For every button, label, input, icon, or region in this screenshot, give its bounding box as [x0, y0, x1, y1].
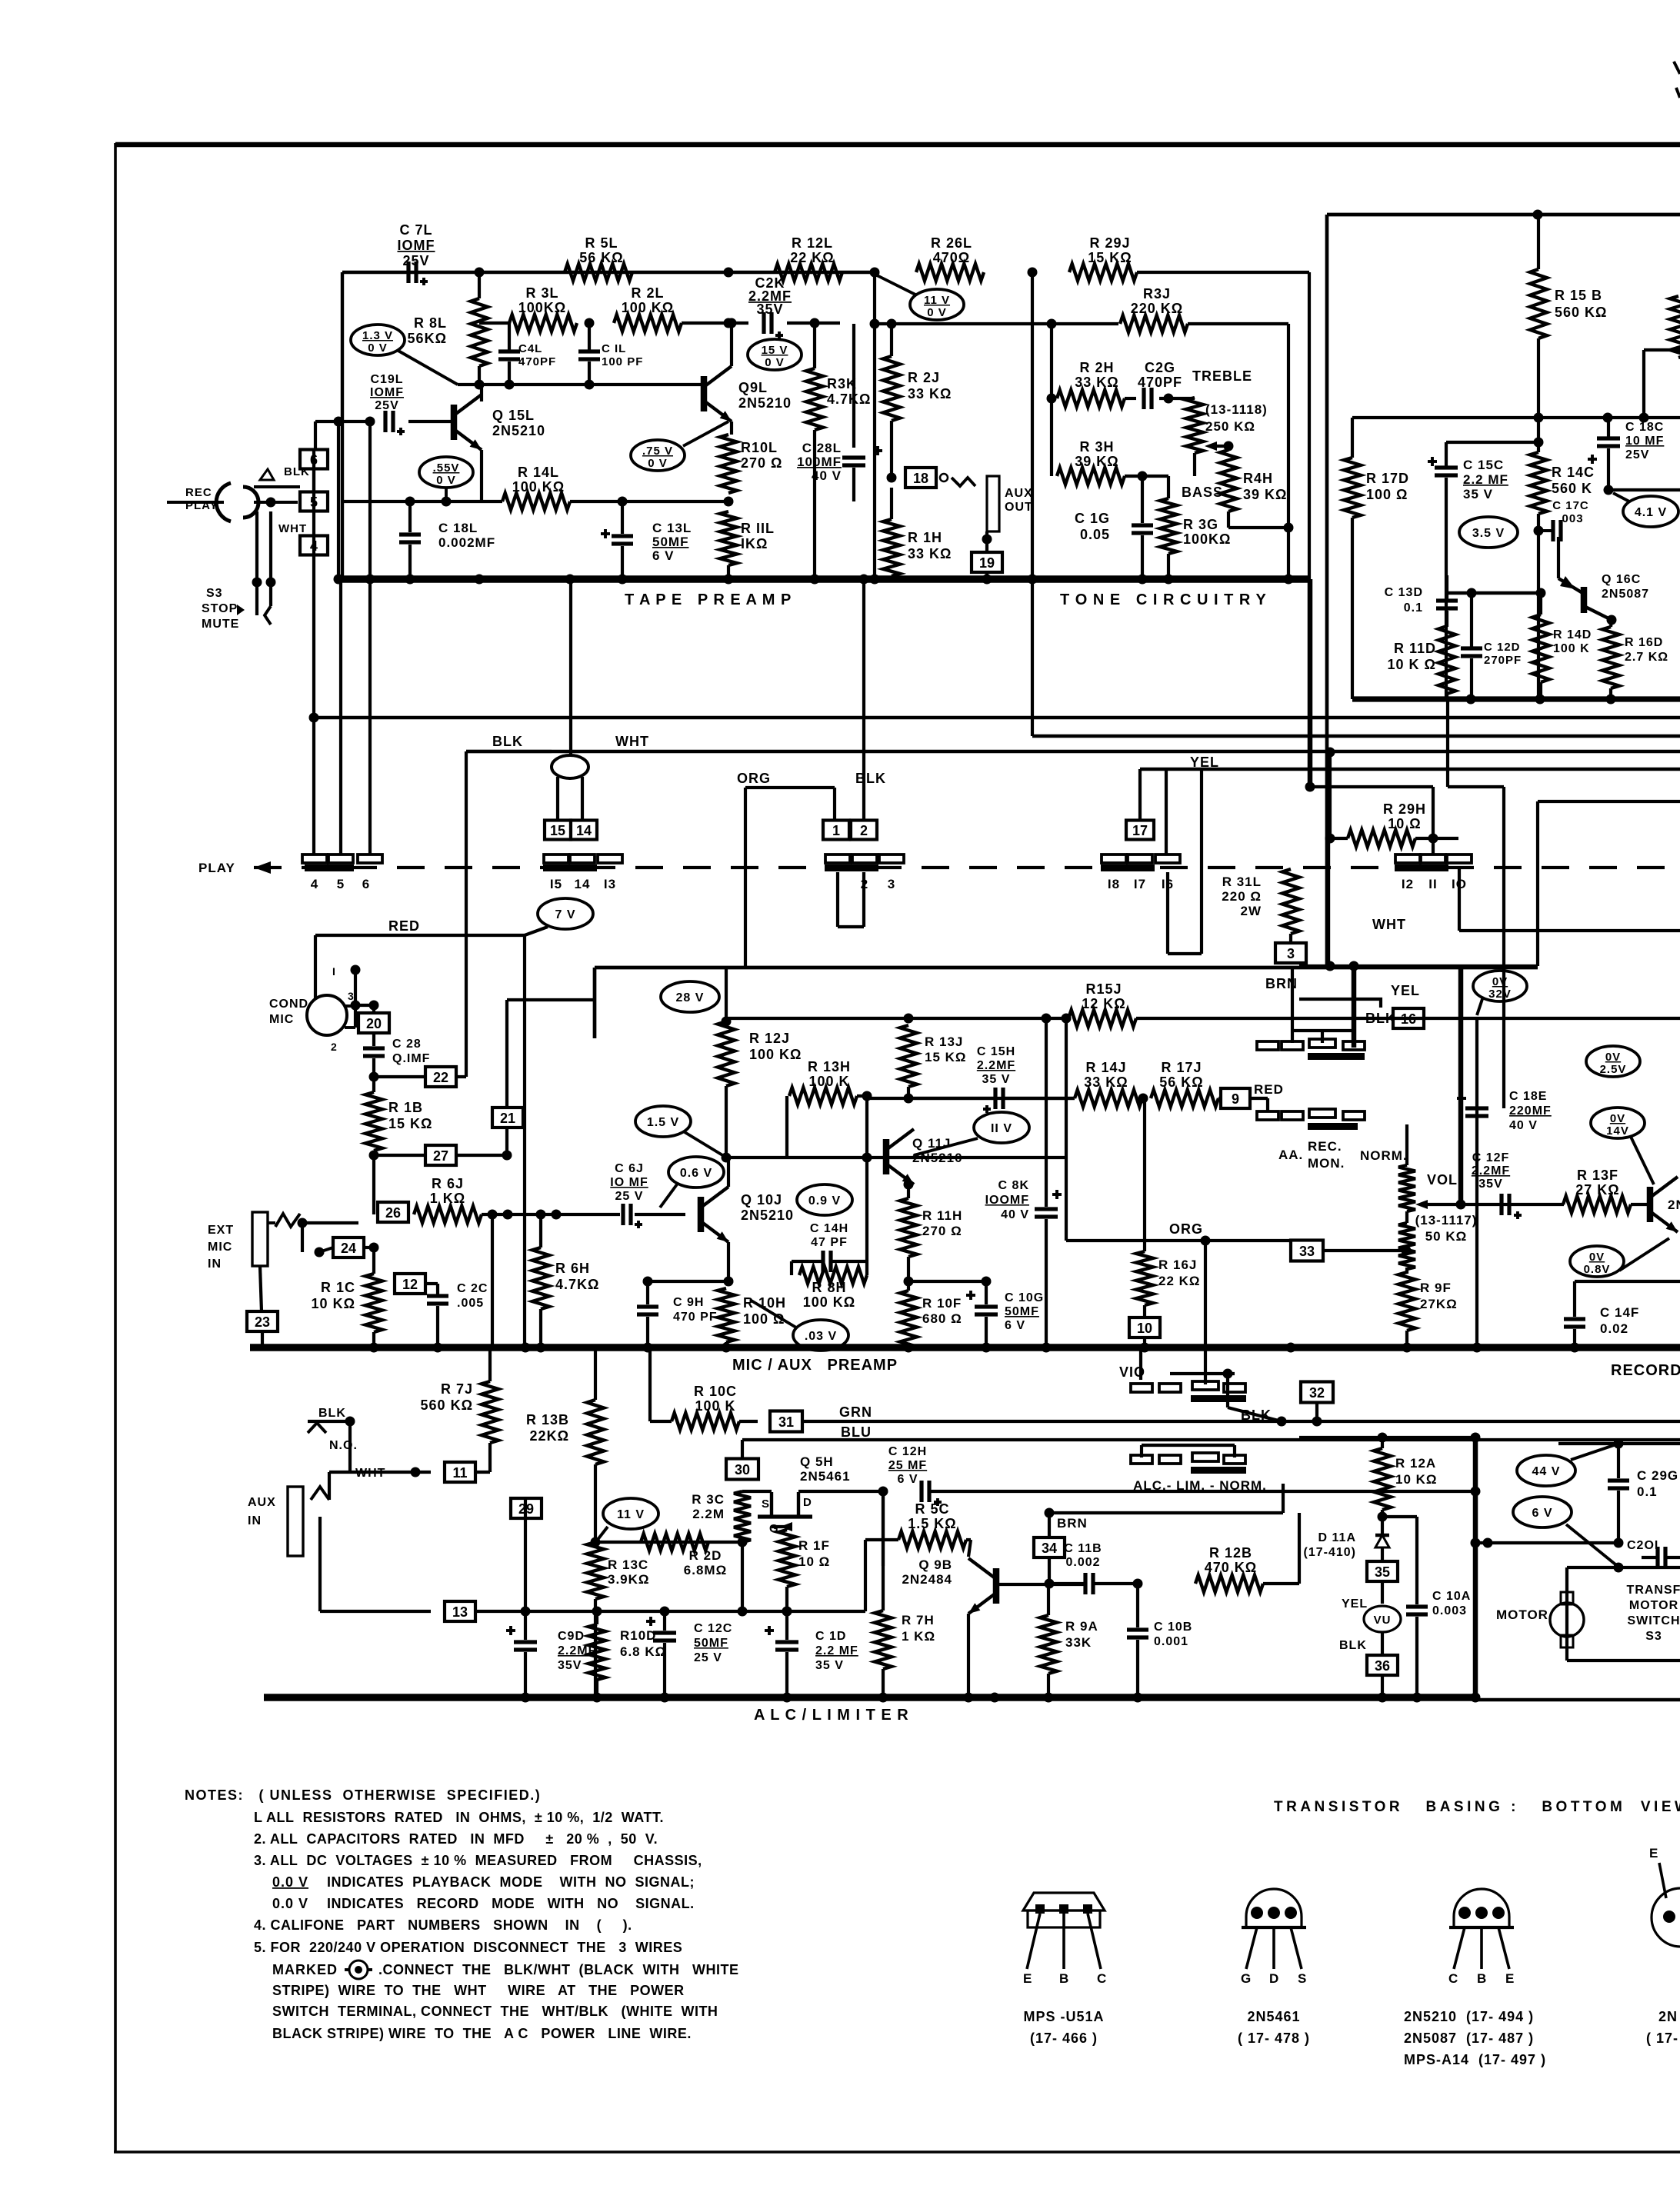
transistor Q10J 2N5210	[698, 1197, 705, 1232]
svg-text:R 15 B: R 15 B	[1555, 288, 1602, 303]
wire C18E vertical	[1475, 1018, 1478, 1348]
svg-text:C 13L: C 13L	[652, 521, 692, 535]
2N5461 leads	[1246, 1927, 1257, 1969]
svg-text:R 11H: R 11H	[922, 1208, 962, 1223]
svg-text:R 13J: R 13J	[925, 1034, 963, 1049]
wire YEL to box 17	[1138, 769, 1142, 820]
bus: ALC/limiter ground bus	[264, 1694, 1475, 1701]
wire: top supply rail of tape preamp	[342, 271, 875, 274]
svg-text:R 1H: R 1H	[908, 530, 942, 545]
svg-text:S3: S3	[206, 587, 223, 600]
connector box 13	[445, 1601, 475, 1621]
stray mark top right	[1674, 62, 1680, 74]
svg-text:11: 11	[452, 1465, 467, 1481]
svg-text:50MF: 50MF	[1005, 1305, 1039, 1318]
svg-text:A L C / L I M I T E R: A L C / L I M I T E R	[754, 1707, 909, 1724]
svg-text:0V: 0V	[1492, 975, 1508, 988]
svg-text:BLK: BLK	[318, 1407, 346, 1420]
jack contact	[940, 474, 948, 481]
svg-text:7 V: 7 V	[555, 908, 575, 921]
resistor R16D vertical	[1602, 627, 1619, 688]
svg-text:YEL: YEL	[1391, 983, 1420, 998]
svg-text:C 10B: C 10B	[1154, 1621, 1192, 1634]
svg-text:R 9A: R 9A	[1065, 1619, 1098, 1634]
svg-text:Q 10J: Q 10J	[741, 1192, 782, 1208]
svg-text:27: 27	[433, 1148, 448, 1164]
svg-text:R 3G: R 3G	[1183, 517, 1218, 532]
svg-text:R 1F: R 1F	[798, 1538, 830, 1553]
junction	[1028, 268, 1038, 278]
svg-text:ORG: ORG	[1169, 1221, 1203, 1237]
svg-text:MUTE: MUTE	[202, 618, 239, 631]
wire: left drop from C7L rail	[341, 272, 344, 579]
svg-text:C2OI: C2OI	[1627, 1539, 1658, 1552]
svg-text:39 KΩ: 39 KΩ	[1075, 454, 1118, 469]
svg-text:2N5087: 2N5087	[1602, 588, 1649, 601]
svg-text:II V: II V	[991, 1122, 1012, 1135]
svg-text:E: E	[1023, 1971, 1032, 1986]
resistor R1B vertical	[365, 1092, 382, 1151]
wire 28V to R12J	[725, 968, 728, 1021]
partial resistor at page edge	[1670, 296, 1680, 358]
svg-text:2N5087 (17- 487 ): 2N5087 (17- 487 )	[1404, 2030, 1534, 2046]
svg-text:C 6J: C 6J	[615, 1162, 644, 1175]
pot wiper	[1205, 441, 1217, 451]
svg-text:470PF: 470PF	[518, 355, 556, 368]
wire: node row collector Q15L	[458, 383, 704, 386]
svg-text:100 Ω: 100 Ω	[743, 1311, 785, 1327]
connector box 23	[247, 1311, 278, 1331]
capacitor C9H	[646, 1281, 649, 1304]
svg-text:C 10G: C 10G	[1005, 1291, 1044, 1304]
wire C12H/Q9B node	[882, 1491, 885, 1566]
svg-text:0.0 V: 0.0 V	[272, 1896, 308, 1911]
svg-text:560 K: 560 K	[1552, 481, 1592, 496]
svg-text:C4L: C4L	[518, 342, 542, 355]
resistor R11D vertical	[1438, 626, 1455, 694]
svg-text:10: 10	[1137, 1321, 1152, 1336]
svg-text:1: 1	[832, 823, 840, 838]
svg-text:ORG: ORG	[737, 771, 771, 786]
wire Q16C collector to R16D	[1607, 615, 1617, 625]
svg-text:23: 23	[255, 1314, 270, 1330]
svg-text:3: 3	[888, 877, 895, 891]
wire: vertical R26L node down	[873, 272, 876, 579]
wire: vertical drops below tape preamp bus	[339, 582, 342, 855]
capacitor C4L	[508, 323, 511, 350]
wire ORG	[745, 786, 835, 789]
svg-text:R 2D: R 2D	[689, 1548, 722, 1563]
wire pads to BLK	[1321, 1031, 1324, 1043]
voltage oval 0V/32V	[1473, 971, 1527, 1001]
wire: y543 node row	[1352, 416, 1680, 419]
svg-text:560 KΩ: 560 KΩ	[1555, 305, 1607, 320]
connector box 4	[300, 536, 328, 555]
svg-text:C 17C: C 17C	[1552, 499, 1589, 512]
svg-text:R4H: R4H	[1243, 471, 1273, 486]
capacitor C10G electrolytic	[966, 1294, 975, 1297]
svg-text:R 2L: R 2L	[631, 285, 664, 301]
connector box 19	[985, 531, 988, 552]
resistor R26L	[916, 264, 984, 281]
wire 6V pointer	[1566, 1524, 1619, 1567]
capacitor C14H	[821, 1251, 825, 1272]
svg-text:50MF: 50MF	[694, 1637, 728, 1650]
resistor R13F	[1563, 1196, 1631, 1213]
wire R2D right to FET source node	[708, 1541, 742, 1544]
svg-text:3.5 V: 3.5 V	[1472, 527, 1505, 540]
capacitor C7L	[406, 262, 410, 283]
svg-text:R 12L: R 12L	[792, 235, 833, 251]
svg-text:Q9L: Q9L	[738, 380, 768, 395]
svg-text:D: D	[803, 1496, 812, 1509]
svg-text:3: 3	[348, 990, 355, 1002]
svg-text:R 31L: R 31L	[1222, 874, 1262, 889]
svg-text:0.05: 0.05	[1080, 527, 1110, 542]
connector pads 18 17 16	[1102, 854, 1126, 863]
wire thick vol	[1458, 966, 1464, 1204]
svg-text:100 Ω: 100 Ω	[1366, 487, 1408, 502]
svg-text:4.1 V: 4.1 V	[1635, 506, 1667, 519]
svg-text:33 KΩ: 33 KΩ	[908, 386, 952, 401]
svg-text:2N5210: 2N5210	[741, 1208, 794, 1223]
connector box 2	[851, 821, 877, 840]
wire Q10J collector	[727, 1158, 730, 1187]
svg-text:14: 14	[575, 877, 591, 891]
capacitor C29G	[1617, 1444, 1620, 1478]
svg-text:C9D: C9D	[558, 1630, 585, 1643]
svg-text:2.7 KΩ: 2.7 KΩ	[1625, 651, 1668, 664]
svg-text:C 15C: C 15C	[1463, 458, 1504, 472]
svg-text:21: 21	[500, 1111, 515, 1126]
svg-text:6 V: 6 V	[652, 548, 675, 563]
svg-text:39 KΩ: 39 KΩ	[1243, 487, 1287, 502]
svg-text:B: B	[1059, 1971, 1069, 1986]
junction dots on ALC bus	[521, 1693, 531, 1703]
connector box 34	[1034, 1537, 1065, 1557]
connector box 26	[378, 1202, 408, 1222]
wire 31 to right	[802, 1420, 1680, 1423]
wire: rail 2	[1032, 735, 1680, 738]
svg-text:22 KΩ: 22 KΩ	[790, 250, 834, 265]
capacitor C18E electrolytic	[1457, 1097, 1466, 1100]
svg-text:Q 9B: Q 9B	[918, 1557, 952, 1572]
voltage ovals 0V/2.5V and 0V/14V	[1586, 1046, 1640, 1077]
svg-text:C 1G: C 1G	[1075, 511, 1110, 526]
svg-text:INDICATES RECORD MODE WI: INDICATES RECORD MODE WITH NO SIGNAL.	[327, 1896, 695, 1911]
svg-text:MPS-A14 (17- 497 ): MPS-A14 (17- 497 )	[1404, 2052, 1546, 2067]
svg-text:G: G	[1241, 1971, 1252, 1986]
svg-text:RED: RED	[1254, 1082, 1284, 1097]
svg-text:270PF: 270PF	[1484, 654, 1522, 667]
wire: RED drop	[523, 935, 526, 1348]
svg-text:2.2 MF: 2.2 MF	[1463, 472, 1508, 487]
svg-text:22: 22	[433, 1070, 448, 1085]
svg-text:40 V: 40 V	[1001, 1208, 1029, 1221]
voltage oval 11V/0V	[910, 289, 964, 320]
svg-text:WHT: WHT	[615, 734, 649, 749]
svg-text:MOTOR: MOTOR	[1629, 1599, 1678, 1612]
wire R29H node drops	[1328, 752, 1332, 838]
svg-text:C 12D: C 12D	[1484, 641, 1521, 654]
transistor basing MPS-U51A package	[1023, 1893, 1105, 1911]
pot lower half	[1398, 1223, 1415, 1269]
svg-text:R 6H: R 6H	[555, 1261, 590, 1276]
svg-text:R 10F: R 10F	[922, 1296, 962, 1311]
svg-text:R 11D: R 11D	[1394, 641, 1436, 656]
svg-text:220MF: 220MF	[1509, 1104, 1552, 1118]
wire pot wiper row	[1421, 1203, 1564, 1206]
svg-text:35 V: 35 V	[1463, 487, 1493, 501]
svg-text:0 V: 0 V	[765, 356, 785, 369]
svg-text:30: 30	[735, 1462, 750, 1477]
svg-text:0 V: 0 V	[436, 474, 456, 487]
connector box 6	[300, 450, 328, 469]
connector pads 4 5 6	[302, 854, 327, 863]
svg-text:12: 12	[402, 1277, 418, 1292]
svg-text:R 8H: R 8H	[812, 1280, 846, 1295]
svg-text:R 12J: R 12J	[749, 1031, 790, 1046]
svg-text:C 12H: C 12H	[888, 1445, 927, 1458]
svg-text:470 PF: 470 PF	[673, 1311, 718, 1324]
svg-text:C 18C: C 18C	[1625, 421, 1664, 434]
capacitor C18C electrolytic	[1607, 418, 1610, 437]
resistor R10F vertical	[900, 1291, 917, 1349]
resistor R13J vertical	[900, 1025, 917, 1087]
svg-text:2: 2	[331, 1041, 338, 1053]
VU meter oval	[1364, 1606, 1401, 1632]
svg-text:44 V: 44 V	[1532, 1465, 1561, 1478]
resistor R11H vertical	[900, 1198, 917, 1257]
svg-text:MIC: MIC	[208, 1241, 232, 1254]
resistor R14J	[1075, 1090, 1142, 1107]
connector box 32	[1301, 1382, 1333, 1403]
connector box 5	[300, 492, 328, 511]
inner block bottom bus	[1352, 696, 1680, 701]
svg-text:34: 34	[1042, 1541, 1057, 1556]
svg-text:(17- 466 ): (17- 466 )	[1030, 2030, 1098, 2046]
svg-text:100MF: 100MF	[797, 455, 842, 469]
svg-text:R 29J: R 29J	[1089, 235, 1130, 251]
svg-text:47 PF: 47 PF	[811, 1236, 848, 1249]
svg-text:C 28: C 28	[392, 1038, 422, 1051]
connector box 9	[1221, 1088, 1250, 1108]
svg-text:6.8 KΩ: 6.8 KΩ	[620, 1644, 666, 1659]
wire 44V pointer	[1571, 1444, 1618, 1460]
svg-text:18: 18	[913, 471, 928, 486]
svg-text:(13-1117): (13-1117)	[1415, 1213, 1478, 1228]
wire right vertical 2104	[1614, 1439, 1624, 1449]
svg-text:R 14J: R 14J	[1085, 1060, 1126, 1075]
resistor R5L	[565, 264, 632, 281]
wire mic to box 20	[369, 1001, 379, 1011]
svg-text:100 K: 100 K	[1553, 642, 1590, 655]
connector box 31	[770, 1411, 802, 1432]
svg-text:.75 V: .75 V	[642, 445, 673, 458]
resistor R1C vertical	[365, 1274, 382, 1332]
svg-text:22KΩ: 22KΩ	[530, 1428, 569, 1444]
svg-text:SWITCH: SWITCH	[1627, 1614, 1680, 1627]
svg-text:2.2MF: 2.2MF	[977, 1059, 1015, 1072]
connector box 24	[333, 1238, 364, 1258]
svg-text:RED: RED	[388, 918, 420, 934]
junction	[475, 268, 485, 278]
svg-text:REC.: REC.	[1308, 1139, 1342, 1154]
svg-text:TRANSF: TRANSF	[1627, 1584, 1680, 1597]
resistor R1F vertical	[778, 1530, 795, 1587]
wire Q9L collector up to C2K node	[730, 323, 733, 366]
svg-text:2N: 2N	[1668, 1198, 1680, 1212]
svg-text:2N: 2N	[1658, 2009, 1678, 2024]
svg-text:35 V: 35 V	[982, 1073, 1011, 1086]
svg-text:R15J: R15J	[1085, 981, 1122, 997]
svg-text:14V: 14V	[1606, 1124, 1629, 1138]
erase head coil	[552, 755, 588, 778]
capacitor C19L	[315, 420, 370, 423]
svg-text:13: 13	[452, 1604, 468, 1620]
svg-text:OUT: OUT	[1005, 501, 1033, 514]
svg-text:R 14C: R 14C	[1552, 465, 1595, 480]
svg-text:L ALL RESISTORS RATED IN: L ALL RESISTORS RATED IN OHMS, ± 10 %, 1…	[254, 1810, 664, 1825]
connector box 36	[1367, 1655, 1398, 1675]
svg-text:15 KΩ: 15 KΩ	[388, 1116, 432, 1131]
svg-text:R3J: R3J	[1143, 286, 1171, 301]
wire: C28L drop	[852, 324, 855, 448]
svg-text:0.8V: 0.8V	[1584, 1263, 1611, 1276]
junction	[1533, 210, 1543, 220]
svg-text:IO MF: IO MF	[610, 1176, 648, 1189]
svg-text:0.02: 0.02	[1600, 1321, 1628, 1336]
erase head drop	[569, 579, 572, 756]
svg-text:R 16J: R 16J	[1158, 1258, 1197, 1272]
svg-text:R 3C: R 3C	[692, 1492, 725, 1507]
svg-text:2N5210: 2N5210	[738, 395, 792, 411]
switch pads row 2	[1257, 1111, 1278, 1120]
capacitor C2K electrolytic	[762, 312, 765, 334]
svg-text:C 14F: C 14F	[1600, 1305, 1639, 1320]
svg-text:C 12F: C 12F	[1472, 1151, 1510, 1164]
resistor R3C vertical	[734, 1491, 751, 1542]
svg-text:35 V: 35 V	[815, 1659, 844, 1672]
resistor R6J	[414, 1206, 482, 1223]
svg-text:R 12A: R 12A	[1395, 1456, 1436, 1471]
svg-text:C 28L: C 28L	[802, 441, 842, 455]
svg-text:0.002MF: 0.002MF	[438, 535, 495, 550]
svg-text:BRN: BRN	[1057, 1516, 1088, 1531]
svg-text:R 14D: R 14D	[1553, 628, 1592, 641]
svg-text:32V: 32V	[1488, 988, 1512, 1001]
svg-text:25 V: 25 V	[694, 1651, 722, 1664]
resistor R13C vertical	[587, 1542, 604, 1599]
wire RED to pads	[1250, 1097, 1268, 1100]
wire vio pads	[1204, 1374, 1207, 1384]
svg-text:IN: IN	[208, 1258, 222, 1271]
wire Q11J base	[867, 1155, 871, 1158]
svg-text:R 29H: R 29H	[1383, 801, 1426, 817]
svg-text:56 KΩ: 56 KΩ	[579, 250, 623, 265]
svg-text:N.O.: N.O.	[329, 1439, 358, 1452]
connector box 1	[823, 821, 849, 840]
svg-text:100 KΩ: 100 KΩ	[803, 1294, 855, 1310]
svg-text:.005: .005	[457, 1297, 484, 1310]
svg-text:25 V: 25 V	[615, 1190, 644, 1203]
svg-text:0.0 V: 0.0 V	[272, 1874, 308, 1890]
svg-text:R 6J: R 6J	[432, 1176, 464, 1191]
svg-text:RECORD: RECORD	[1611, 1362, 1680, 1379]
voltage oval 13V/0V	[351, 325, 405, 355]
MPS-U51A leads	[1027, 1914, 1040, 1969]
wire: R3L/R2L row	[479, 321, 509, 325]
svg-text:470 KΩ: 470 KΩ	[1205, 1560, 1257, 1575]
svg-text:680 Ω: 680 Ω	[922, 1311, 962, 1326]
wire FET G	[772, 1525, 787, 1528]
svg-text:IOMF: IOMF	[370, 386, 404, 399]
voltage oval 6V	[1513, 1497, 1572, 1527]
svg-text:6 V: 6 V	[897, 1473, 918, 1486]
wire yel loop	[1165, 769, 1168, 854]
svg-text:II: II	[1428, 877, 1437, 891]
svg-text:25V: 25V	[375, 399, 398, 412]
svg-text:( 17- 478 ): ( 17- 478 )	[1238, 2030, 1310, 2046]
voltage oval 0.6V	[668, 1157, 724, 1188]
resistor R4H vertical	[1220, 450, 1237, 511]
bus: tape preamp / tone circuitry ground bus	[338, 575, 1310, 582]
page border frame	[115, 142, 1680, 148]
svg-text:12 KΩ: 12 KΩ	[1082, 996, 1125, 1011]
svg-text:MIC: MIC	[269, 1013, 294, 1026]
wire 7V callout	[315, 934, 525, 937]
transistor Q16C 2N5087 (PNP)	[1581, 587, 1588, 613]
svg-text:27KΩ: 27KΩ	[1420, 1297, 1458, 1311]
svg-text:56 KΩ: 56 KΩ	[1159, 1074, 1203, 1090]
capacitor C10B	[1136, 1584, 1139, 1627]
svg-text:YEL: YEL	[1342, 1597, 1368, 1611]
connector box 35	[1367, 1561, 1398, 1581]
svg-text:11 V: 11 V	[617, 1508, 645, 1521]
resistor R3K vertical	[806, 368, 823, 430]
voltage oval 11V alc	[603, 1498, 658, 1529]
svg-text:R10D: R10D	[620, 1628, 656, 1643]
svg-text:10 MF: 10 MF	[1625, 435, 1664, 448]
resistor R13H	[789, 1088, 857, 1104]
svg-text:D 11A: D 11A	[1318, 1531, 1356, 1544]
svg-text:2N5210: 2N5210	[492, 423, 545, 438]
svg-text:5: 5	[337, 877, 345, 891]
svg-text:MPS -U51A: MPS -U51A	[1023, 2009, 1104, 2024]
voltage oval 4.1V	[1623, 496, 1678, 527]
resistor R14D vertical	[1532, 615, 1549, 682]
capacitor C12D	[1470, 593, 1473, 648]
svg-text:C 13D: C 13D	[1385, 586, 1423, 599]
svg-text:470PF: 470PF	[1138, 375, 1182, 390]
svg-text:BLK: BLK	[855, 771, 886, 786]
transistor Q15L 2N5210	[451, 405, 458, 440]
svg-text:E: E	[1505, 1971, 1515, 1986]
voltage oval 7V	[538, 898, 593, 929]
resistor R3G vertical	[1160, 498, 1177, 554]
svg-text:56KΩ: 56KΩ	[408, 331, 447, 346]
wire org down from r15j row	[1065, 1018, 1068, 1241]
wire: Q15L emitter down	[480, 450, 483, 501]
voltage oval 1.5V	[635, 1106, 691, 1137]
EXT MIC jack	[252, 1212, 268, 1266]
capacitor C8K electrolytic	[1052, 1193, 1062, 1196]
svg-text:6: 6	[362, 877, 370, 891]
svg-text:270 Ω: 270 Ω	[741, 455, 782, 471]
svg-text:C 1D: C 1D	[815, 1630, 846, 1643]
svg-text:2.5V: 2.5V	[1600, 1063, 1627, 1076]
svg-text:NORM.: NORM.	[1360, 1148, 1408, 1163]
